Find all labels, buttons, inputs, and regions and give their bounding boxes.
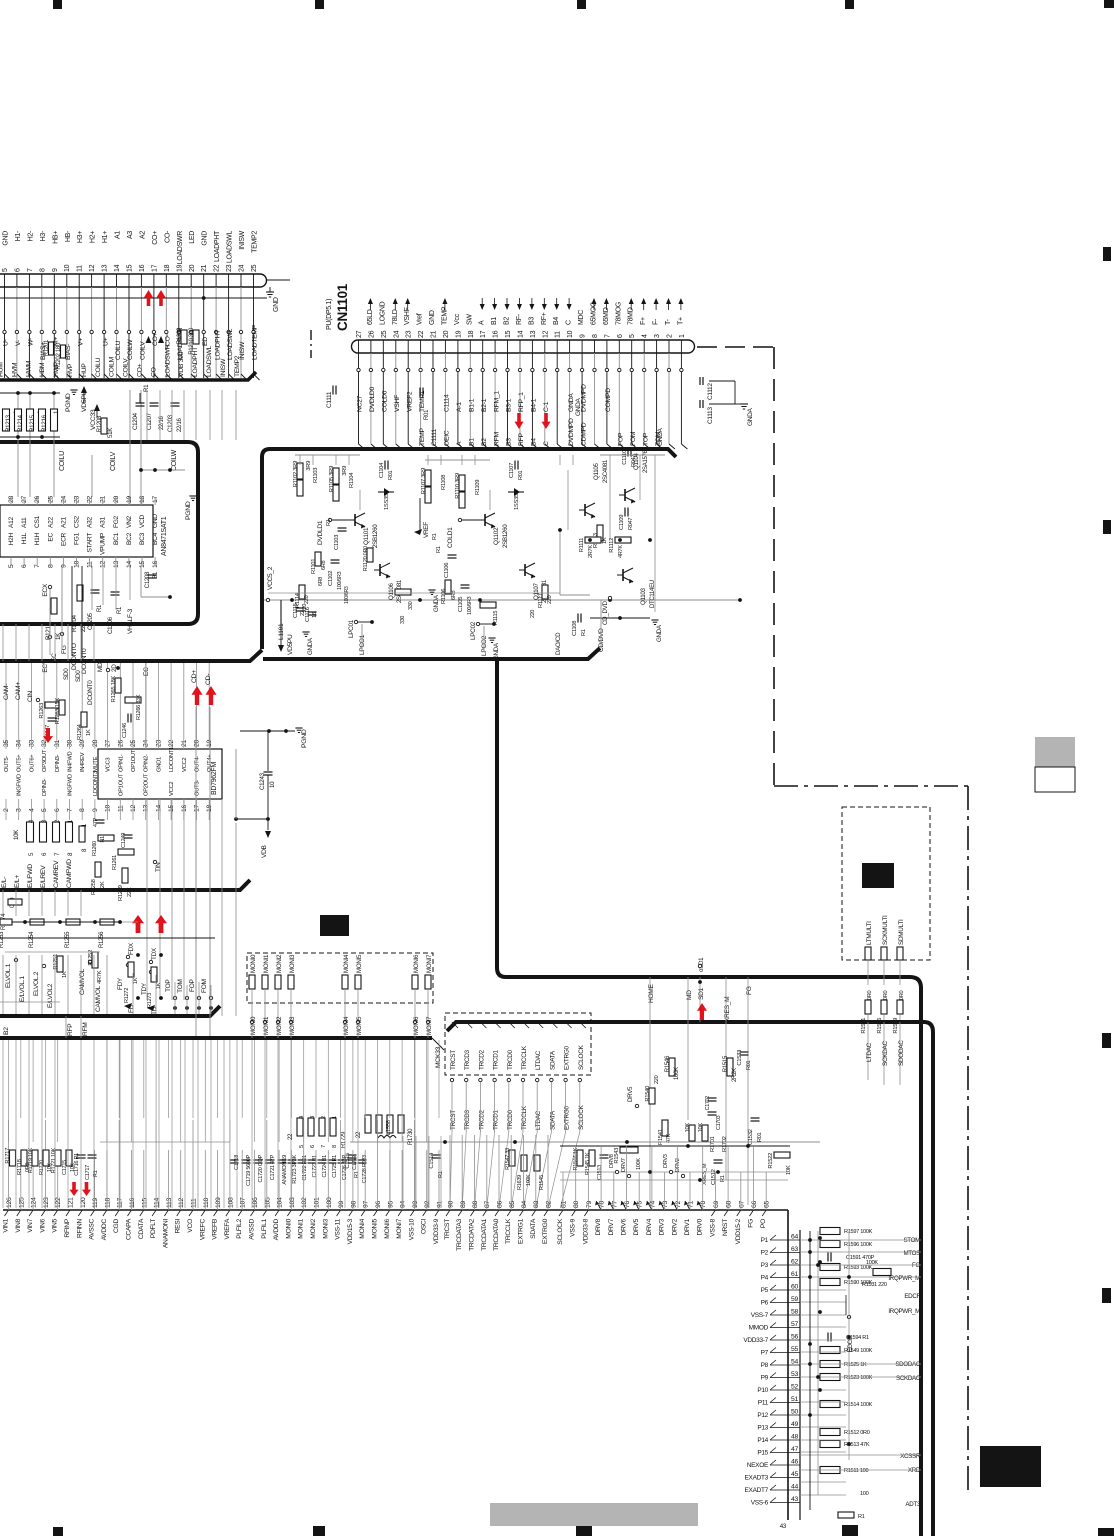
svg-text:R1514 100K: R1514 100K (844, 1402, 873, 1408)
wire CN1101 pin 7 drop (606, 353, 608, 368)
svg-text:64: 64 (791, 1234, 798, 1241)
capacitor C1247 (48, 717, 57, 719)
svg-text:ED: ED (202, 337, 209, 346)
svg-text:19: 19 (126, 496, 133, 503)
svg-text:108: 108 (227, 1197, 234, 1208)
resistor R1545 1K (589, 1150, 595, 1166)
resistor R1110 3R9 (459, 475, 465, 491)
wire CN1101 pin 8 drop (594, 353, 596, 368)
svg-text:OPIN2-: OPIN2- (144, 754, 150, 772)
svg-text:NC27: NC27 (357, 395, 364, 412)
wires TMULTI below bus (867, 1022, 869, 1080)
svg-text:E/LREV: E/LREV (40, 865, 47, 888)
svg-text:TRCST: TRCST (450, 1050, 457, 1070)
svg-text:2SB1260: 2SB1260 (372, 524, 379, 548)
red arrow CO- pin18 (157, 290, 166, 306)
flow arrow up (630, 300, 632, 310)
svg-text:R1261: R1261 (112, 855, 118, 870)
svg-text:R1258: R1258 (91, 879, 97, 895)
wire pin 86 up (498, 1135, 500, 1210)
resistor R1511 100 (820, 1467, 840, 1474)
capacitor C1702 (708, 1097, 717, 1099)
svg-text:TRCD1: TRCD1 (493, 1109, 500, 1130)
resistor R1596 100K (820, 1241, 840, 1248)
svg-text:0R0: 0R0 (867, 990, 873, 1000)
svg-text:MONI0: MONI0 (250, 1016, 257, 1035)
capacitor C1724 (318, 1159, 327, 1161)
resistor R1103 3R9 (297, 480, 303, 496)
capacitor C1106 R1 (448, 554, 457, 556)
wire pin 78 up (600, 1146, 602, 1210)
svg-text:CD+: CD+ (191, 670, 198, 683)
svg-text:B3-1: B3-1 (506, 398, 513, 412)
resistor R1513 47K (820, 1441, 840, 1448)
svg-text:COMPD: COMPD (605, 388, 612, 412)
svg-text:BC2: BC2 (126, 532, 133, 545)
svg-text:C: C (566, 320, 573, 325)
resistor R1104 3R9 (333, 485, 339, 501)
svg-text:118: 118 (104, 1198, 111, 1208)
svg-text:RF+: RF+ (541, 312, 548, 325)
black arrow CO- wire (158, 336, 164, 343)
svg-text:MONI3: MONI3 (289, 1016, 296, 1035)
svg-text:4: 4 (642, 334, 649, 338)
wire CN1101 pin 2 drop (668, 353, 670, 368)
capacitor C1112 (699, 377, 701, 385)
svg-text:7: 7 (604, 334, 611, 338)
resistor R1216 1 (39, 409, 46, 431)
svg-text:9: 9 (52, 268, 59, 272)
svg-text:16: 16 (139, 264, 146, 272)
svg-text:R1106: R1106 (441, 589, 447, 604)
wire pin 126 up (8, 1120, 10, 1210)
svg-text:VREF: VREF (423, 522, 430, 538)
svg-text:OUT4-: OUT4- (195, 756, 201, 772)
connector CN1101 pin 9 MDC (581, 340, 583, 353)
svg-text:Q1101: Q1101 (363, 527, 370, 545)
resistor R1204 220 (77, 585, 83, 601)
svg-text:DPIN3-: DPIN3- (42, 778, 48, 796)
connector CN1102 pin 6 and label H1- (16, 274, 18, 287)
svg-text:CIN: CIN (27, 691, 34, 702)
svg-text:51K: 51K (107, 427, 114, 438)
svg-text:R1209: R1209 (177, 327, 183, 344)
dashed box LTMULTI/SCKMULTI/SDMULTI (842, 807, 930, 960)
resistor C1594 R1 (827, 1333, 829, 1342)
flow arrow down (506, 298, 508, 308)
wire pin 83 up (535, 1135, 537, 1210)
svg-text:BC3: BC3 (139, 532, 146, 545)
svg-text:LOADPHT: LOADPHT (214, 330, 221, 360)
bus thick motor-phase y=380 (0, 372, 256, 380)
pin circle CD_DVD (608, 596, 611, 599)
svg-text:2D: 2D (111, 664, 118, 672)
wire pin 123 up (44, 1120, 46, 1210)
svg-text:65: 65 (764, 1201, 771, 1208)
svg-text:DRV8: DRV8 (609, 1154, 615, 1168)
ground GNDA C1108 (651, 619, 658, 621)
svg-text:C1111: C1111 (326, 391, 333, 408)
wire COILU (17, 393, 19, 497)
wire CN1101 pin 11 drop (556, 353, 558, 368)
wire slant entries into bus y=449 (359, 444, 365, 449)
svg-text:R1201: R1201 (44, 339, 50, 356)
connector CN1102 pin 16 and label A2 (140, 274, 142, 287)
wire pin 68 up (727, 1146, 729, 1210)
svg-text:26: 26 (368, 330, 375, 338)
wire bundle x390-440 (389, 1136, 391, 1208)
svg-text:CAM+: CAM+ (15, 682, 22, 700)
svg-text:R1546: R1546 (665, 1055, 671, 1072)
svg-text:CCAPA: CCAPA (126, 1218, 133, 1240)
svg-text:25: 25 (130, 740, 137, 747)
resistor R1541 47K (662, 1120, 668, 1136)
svg-text:15: 15 (127, 264, 134, 272)
resistor R1540 220 (649, 1088, 655, 1104)
svg-text:VREFA: VREFA (224, 1218, 231, 1239)
svg-text:20: 20 (194, 740, 201, 747)
wire slant entries into bus y=380 (5, 374, 11, 380)
svg-text:GNDA: GNDA (657, 427, 664, 446)
resistor R1543 100K (620, 1147, 638, 1153)
wire pin 95 up (389, 1150, 391, 1210)
svg-text:MONI6: MONI6 (413, 1016, 420, 1035)
wire volume area horizontals (0, 937, 215, 939)
svg-text:VSHF: VSHF (394, 395, 401, 412)
wire P column internal verticals (809, 1231, 811, 1510)
svg-text:OUT5-: OUT5- (4, 756, 10, 772)
resistor R1105 3R9 (333, 468, 339, 484)
svg-text:R1117: R1117 (538, 593, 544, 608)
svg-text:SD1: SD1 (698, 987, 705, 1000)
resistor R1 bottom (838, 1512, 854, 1518)
svg-text:116: 116 (129, 1198, 136, 1208)
svg-text:R1208: R1208 (97, 415, 103, 432)
svg-text:FOP: FOP (189, 978, 196, 992)
resistor R1514 100K (820, 1401, 840, 1408)
svg-text:AVDDC: AVDDC (101, 1219, 108, 1241)
connector CN1101 pin 6 78MOG (618, 340, 620, 353)
wire pin 73 up (664, 1172, 666, 1210)
svg-text:220: 220 (530, 610, 536, 618)
svg-text:95: 95 (387, 1201, 394, 1208)
svg-text:TRCDATA2: TRCDATA2 (469, 1218, 476, 1250)
wire pin 90 up (449, 1135, 451, 1210)
wire pin 69 up (714, 1172, 716, 1210)
svg-text:R1529: R1529 (893, 1018, 899, 1034)
svg-text:VDB 390: VDB 390 (178, 351, 185, 377)
svg-text:PLFIL1: PLFIL1 (261, 1218, 268, 1238)
svg-text:R1283 15K: R1283 15K (55, 698, 61, 725)
connector CN1101 pin 7 65MD (606, 340, 608, 353)
svg-text:U+: U+ (102, 337, 109, 346)
svg-text:C1105: C1105 (458, 597, 464, 612)
svg-text:TRCD2: TRCD2 (478, 1109, 485, 1130)
svg-text:MONI3: MONI3 (289, 954, 296, 973)
svg-text:27: 27 (105, 740, 112, 747)
svg-text:TRCD3: TRCD3 (464, 1109, 471, 1130)
svg-text:VSS-9: VSS-9 (570, 1218, 577, 1236)
svg-text:R1522: R1522 (768, 1153, 774, 1169)
svg-text:MONI7: MONI7 (426, 1016, 433, 1035)
flow arrow up (444, 300, 446, 310)
ground GNDA Q1106 (428, 589, 435, 591)
svg-text:10: 10 (269, 781, 276, 788)
svg-text:R1511 100: R1511 100 (844, 1468, 868, 1474)
capacitor C1514 R1 (432, 1154, 441, 1156)
wire pin 82 up (547, 1135, 549, 1210)
svg-text:103: 103 (289, 1197, 296, 1208)
red arrow TD (155, 915, 167, 933)
svg-text:20: 20 (113, 496, 120, 503)
resistor R1113 1K (597, 525, 603, 541)
resistor R1214 1 (15, 409, 22, 431)
svg-text:T+: T+ (677, 317, 684, 325)
wire VM (91, 455, 93, 497)
svg-text:MONI1: MONI1 (298, 1218, 305, 1238)
svg-text:SCLOCK: SCLOCK (557, 1218, 564, 1245)
wire pin 125 up (20, 1150, 22, 1210)
svg-text:R1120 0R0: R1120 0R0 (363, 546, 369, 571)
svg-text:6: 6 (310, 1145, 316, 1148)
svg-text:Q1105: Q1105 (593, 463, 600, 480)
resistor R1515 2R2K (727, 1058, 733, 1076)
wire cluster verticals block C (299, 455, 301, 465)
transistor Q1102 2SB1260 (484, 514, 486, 526)
IC U1701 corner into P column (787, 1210, 789, 1520)
wire pin 104 up (278, 1150, 280, 1210)
svg-text:A12: A12 (8, 517, 15, 528)
svg-text:45: 45 (791, 1471, 798, 1478)
svg-text:12: 12 (542, 330, 549, 338)
resistor R1117 220 (542, 585, 548, 599)
connector CN1102 pin 11 and label H3+ (78, 274, 80, 287)
svg-text:MONI7: MONI7 (396, 1218, 403, 1238)
connector CN1101 pin 1 T+ (680, 340, 682, 353)
svg-text:R1: R1 (143, 384, 150, 392)
svg-text:DCONT0: DCONT0 (87, 680, 94, 705)
connector CN1101 pin 21 GND (432, 340, 434, 353)
svg-text:T-: T- (665, 318, 672, 325)
wire dashed from CN1101 end to right (697, 346, 774, 348)
svg-text:MONI0: MONI0 (285, 1218, 292, 1238)
ground GND at connector end (267, 279, 291, 281)
svg-text:47: 47 (791, 1446, 798, 1453)
svg-text:R1213: R1213 (5, 414, 12, 432)
svg-text:HUM: HUM (0, 362, 5, 377)
svg-text:A: A (479, 320, 486, 325)
wire CN1102 pin 9 drop (53, 287, 55, 330)
svg-text:8: 8 (79, 808, 86, 812)
wire pin 117 up (118, 1120, 120, 1210)
resistor LTMULTI series (865, 947, 871, 960)
capacitor C1723 (308, 1159, 317, 1161)
wire GNDA rail block C (268, 592, 560, 594)
svg-text:10K: 10K (685, 1123, 691, 1133)
svg-text:DRV1: DRV1 (684, 1218, 691, 1235)
wire pin 77 up (613, 1172, 615, 1210)
svg-text:21: 21 (181, 740, 188, 747)
svg-text:B4: B4 (531, 438, 538, 446)
svg-text:GNDA: GNDA (656, 624, 663, 642)
wire IC right pins (235, 749, 237, 819)
svg-text:28: 28 (8, 496, 15, 503)
resistor R1208 51K (101, 418, 107, 434)
svg-text:P1: P1 (761, 1237, 769, 1244)
svg-text:AVSSC: AVSSC (89, 1219, 96, 1240)
svg-text:A11: A11 (21, 517, 28, 528)
wire pgnd horizontal (141, 469, 185, 471)
resistor R1512 0R0 (820, 1429, 840, 1436)
svg-text:P7: P7 (761, 1350, 769, 1357)
resistor R1258 22K (95, 862, 101, 877)
svg-text:EC: EC (51, 653, 58, 662)
svg-text:0R0: 0R0 (883, 990, 889, 1000)
svg-text:6R8: 6R8 (321, 560, 327, 570)
svg-text:TEMP2: TEMP2 (252, 231, 259, 253)
svg-text:20: 20 (443, 330, 450, 338)
svg-text:25: 25 (381, 330, 388, 338)
bus thick E/L y=890 (0, 880, 250, 890)
wire CN1101 pin 19 drop (457, 353, 459, 368)
capacitor C1110 R047 (627, 448, 629, 457)
svg-text:330: 330 (400, 616, 406, 624)
svg-text:18: 18 (468, 330, 475, 338)
svg-text:VD5PU: VD5PU (287, 634, 294, 655)
capacitor C1248 47P (96, 819, 105, 821)
svg-text:A1: A1 (115, 231, 122, 239)
svg-text:LTDAC: LTDAC (535, 1110, 542, 1130)
svg-text:ECX: ECX (42, 583, 49, 597)
red arrow RFINP (70, 1182, 79, 1196)
svg-text:TRCST: TRCST (444, 1219, 451, 1240)
svg-text:VN2: VN2 (126, 515, 133, 528)
svg-text:4R7K: 4R7K (97, 970, 103, 984)
IC U1701 pin 44 EXADT7 (770, 1489, 800, 1491)
svg-text:18: 18 (164, 264, 171, 272)
capacitor C1727 (348, 1159, 357, 1161)
svg-text:ANAMONI: ANAMONI (162, 1219, 169, 1249)
svg-text:LDCONT3: LDCONT3 (93, 771, 99, 796)
svg-text:22: 22 (168, 740, 175, 747)
connector CN1102 pin 8 and label H3- (41, 274, 43, 287)
svg-text:LOADPHT: LOADPHT (192, 347, 199, 377)
svg-text:TRCCLK: TRCCLK (505, 1218, 512, 1244)
svg-text:R1216: R1216 (41, 414, 48, 432)
resistor R1546 100K (669, 1058, 675, 1076)
capacitor ANAMONI19 (278, 1159, 287, 1161)
svg-text:TRCD0: TRCD0 (507, 1109, 514, 1130)
wire pin 112 up (180, 1150, 182, 1210)
svg-text:R1541: R1541 (658, 1129, 664, 1145)
svg-text:R1717: R1717 (5, 1148, 11, 1164)
svg-text:24: 24 (60, 496, 67, 503)
svg-text:TRCCLK: TRCCLK (521, 1105, 528, 1130)
svg-text:COLD1: COLD1 (447, 527, 454, 548)
wire VCC5-2 rail (270, 579, 480, 581)
black marker box C bottom right (980, 1446, 1041, 1487)
svg-text:90: 90 (448, 1201, 455, 1208)
svg-text:P2: P2 (761, 1250, 769, 1257)
svg-text:B1: B1 (491, 317, 498, 325)
wire CN1102 pin 15 drop (128, 287, 130, 330)
wire pin 119 up (94, 1150, 96, 1210)
svg-text:LOADSWR: LOADSWR (164, 344, 171, 377)
svg-text:22: 22 (214, 264, 221, 272)
resistor R1529 (897, 1000, 903, 1014)
svg-text:P12: P12 (757, 1412, 768, 1419)
resistor R1545b (534, 1155, 540, 1171)
svg-text:124: 124 (31, 1197, 38, 1208)
svg-text:R1251: R1251 (53, 954, 59, 970)
wire CN1101 pin 16 drop (494, 353, 496, 368)
svg-text:B4: B4 (553, 317, 560, 325)
wire bundle COIL to servo (146, 390, 148, 440)
wire CN1102 pin 11 drop (78, 287, 80, 330)
wire pin 76 up (626, 1146, 628, 1210)
flow arrow up (655, 300, 657, 310)
resistor R1202 BIAS- 180 (61, 345, 66, 358)
svg-text:HWP: HWP (53, 361, 60, 377)
svg-text:MTOS: MTOS (903, 1250, 920, 1257)
wire CN1102 pin 5 drop (4, 287, 6, 330)
registration mark top 2 (315, 0, 324, 9)
svg-text:HB+: HB+ (52, 231, 59, 244)
svg-text:R1263: R1263 (39, 703, 45, 719)
svg-text:P6: P6 (761, 1300, 769, 1307)
svg-text:MONI4: MONI4 (343, 954, 350, 973)
svg-text:VHALF-3: VHALF-3 (127, 608, 134, 634)
wire CN1102 pin 19 drop (178, 287, 180, 330)
resistor R1209 390 (181, 330, 187, 344)
svg-text:93: 93 (412, 1201, 419, 1208)
svg-text:3R9: 3R9 (306, 461, 312, 471)
wire EC drop (49, 589, 51, 655)
svg-text:78MOG: 78MOG (615, 302, 622, 325)
svg-text:DRV3: DRV3 (663, 1154, 669, 1168)
resistor R1111 2R7K (585, 537, 601, 543)
resistor R1590 100K (820, 1279, 840, 1286)
svg-text:Vref: Vref (417, 313, 424, 325)
wire CN1102 pin 6 drop (16, 287, 18, 330)
svg-text:MMOD: MMOD (749, 1325, 769, 1332)
svg-text:R1723 3P3K: R1723 3P3K (292, 1154, 298, 1183)
svg-text:DVDLD1: DVDLD1 (317, 520, 324, 545)
registration mark top 1 (53, 0, 62, 9)
capacitor C1722 (298, 1159, 307, 1161)
svg-text:DRV5: DRV5 (627, 1086, 634, 1102)
svg-text:68: 68 (726, 1201, 733, 1208)
svg-text:LOADSWL: LOADSWL (227, 231, 234, 264)
IC U1701 pin 64 P1 (770, 1239, 800, 1241)
wire pin 118 up (106, 1150, 108, 1210)
svg-text:B4-1: B4-1 (531, 398, 538, 412)
svg-text:52: 52 (791, 1384, 798, 1391)
svg-text:A2: A2 (139, 231, 146, 239)
wire DCONT drops (71, 566, 73, 656)
svg-text:PO: PO (760, 1219, 767, 1228)
connector CN1102 pin 12 and label H2+ (91, 274, 93, 287)
wire CN1101 pin 4 drop (643, 353, 645, 368)
svg-text:RFM: RFM (82, 1023, 89, 1036)
svg-text:ELVOL.1: ELVOL.1 (5, 963, 12, 988)
svg-text:DRV2: DRV2 (671, 1218, 678, 1235)
capacitor C1114 R01 (419, 388, 421, 397)
resistor R1108 3R9 (425, 487, 431, 503)
svg-text:C1716 R1: C1716 R1 (74, 1153, 80, 1176)
svg-text:MONI7: MONI7 (426, 954, 433, 973)
wire CN1102 pin 16 drop (140, 287, 142, 330)
